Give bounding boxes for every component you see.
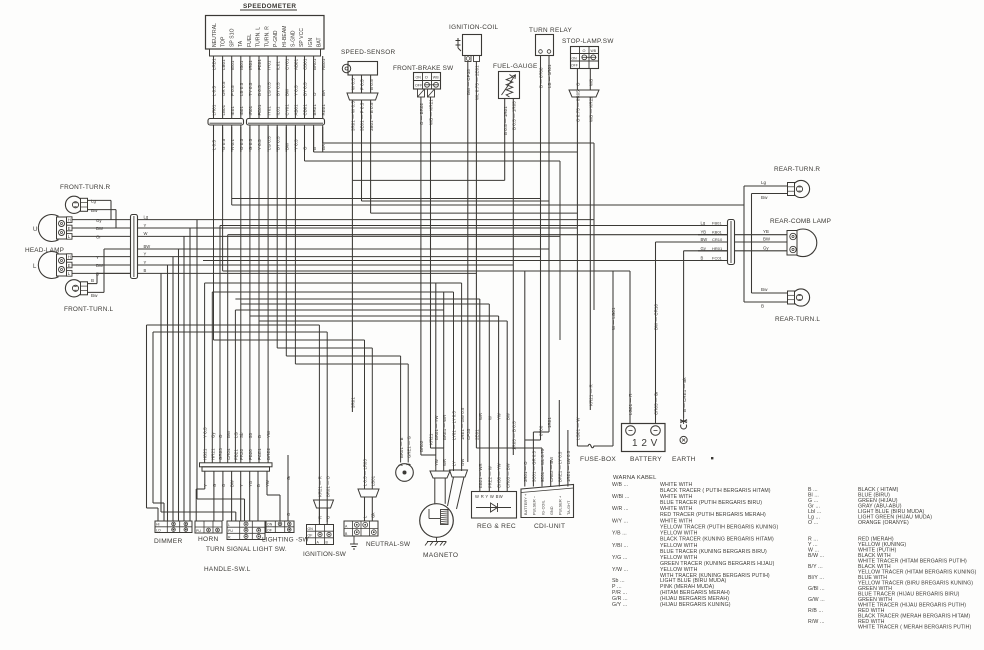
svg-text:P 0.5: P 0.5 (230, 85, 235, 96)
rear-turn-r bulb (792, 180, 809, 197)
wire row magneto row 3 (235, 309, 443, 311)
svg-text:W/Y ...: W/Y ... (612, 519, 628, 525)
front-brake-sw pins (418, 89, 425, 97)
svg-text:RE01: RE01 (321, 104, 326, 116)
svg-text:Bw: Bw (761, 287, 768, 292)
wire neutral-sw wire 2 (371, 348, 373, 489)
rear connector bar (728, 220, 735, 265)
svg-text:KR21: KR21 (429, 433, 434, 445)
svg-text:FRONT-BRAKE SW: FRONT-BRAKE SW (393, 65, 454, 72)
speedometer wire 11 (304, 56, 306, 118)
svg-text:WB — KR22: WB — KR22 (589, 96, 594, 122)
rear loop vertical 1 (743, 186, 745, 302)
svg-text:O: O (312, 92, 317, 96)
svg-text:CR10: CR10 (712, 237, 723, 242)
svg-text:Gr: Gr (286, 475, 291, 480)
svg-text:B — CRE1 — Bk: B — CRE1 — Bk (682, 377, 687, 412)
svg-text:KB01: KB01 (712, 230, 723, 235)
svg-text:S-GND: S-GND (291, 30, 297, 47)
svg-text:B: B (761, 304, 764, 309)
rear comb wires (735, 234, 788, 236)
svg-text:YB: YB (763, 229, 769, 234)
svg-text:FRONT-TURN.L: FRONT-TURN.L (64, 306, 114, 313)
svg-text:BR02: BR02 (419, 440, 424, 452)
ignition-sw connector (314, 500, 334, 508)
svg-text:BR01 — O: BR01 — O (325, 475, 330, 497)
head-lamp upper wires (72, 219, 130, 221)
fuse-box wire right (612, 271, 614, 446)
svg-text:DRE2: DRE2 (266, 447, 271, 460)
svg-text:LG01 — R: LG01 — R (628, 393, 633, 415)
rear bar row Gy (698, 250, 728, 252)
speedometer wire 5 lower (249, 126, 251, 153)
svg-text:(HIJAU BERGARIS KUNING): (HIJAU BERGARIS KUNING) (660, 602, 731, 608)
svg-text:G 0.5: G 0.5 (248, 138, 253, 150)
svg-text:LIGHTING -SW: LIGHTING -SW (262, 537, 310, 544)
svg-text:H: H (68, 254, 71, 259)
svg-text:STOP-LAMP.SW: STOP-LAMP.SW (562, 38, 614, 45)
stop-lamp-sw wires upper (576, 69, 578, 91)
svg-text:B: B (257, 435, 262, 438)
svg-text:O: O (576, 82, 581, 86)
svg-text:AB01: AB01 (294, 104, 299, 116)
fan braid row a (197, 498, 245, 500)
earth dot (711, 457, 713, 459)
svg-text:Y/B ...: Y/B ... (612, 531, 627, 537)
head-lamp upper body (38, 215, 58, 242)
svg-text:Y 0.5: Y 0.5 (294, 85, 299, 96)
speedometer wire 8 lower (276, 126, 278, 153)
svg-text:FRE2 — W: FRE2 — W (487, 466, 492, 488)
wire row r3 (305, 160, 561, 162)
svg-text:IB01: IB01 (239, 106, 244, 116)
neutral-sw ground (350, 536, 358, 549)
horn unit (396, 464, 414, 482)
svg-text:BRE1 — LY 0.5: BRE1 — LY 0.5 (557, 451, 562, 482)
wire stair vertical x197 (196, 220, 198, 499)
svg-text:Sb: Sb (239, 432, 244, 438)
fuel-gauge wire 2 (512, 99, 514, 456)
svg-text:YW: YW (497, 413, 502, 420)
svg-text:IY01: IY01 (266, 106, 271, 116)
speedometer wire 12 lower (313, 126, 315, 153)
svg-text:BLUE TRACER (PUTIH BERGARIS BI: BLUE TRACER (PUTIH BERGARIS BIRU) (660, 500, 762, 506)
svg-text:IL01: IL01 (275, 106, 280, 115)
svg-text:BW: BW (144, 244, 151, 249)
svg-text:E: E (68, 226, 71, 231)
svg-text:O: O (583, 49, 586, 53)
svg-text:CR05 — Gr: CR05 — Gr (654, 391, 659, 415)
svg-text:3R01: 3R01 (351, 397, 356, 408)
front-brake wire joins (421, 454, 436, 456)
svg-text:LY: LY (452, 461, 457, 466)
svg-text:W/R ...: W/R ... (612, 506, 629, 512)
wire row magneto row 2 (212, 291, 453, 293)
wire speedo w8 drop (276, 127, 278, 348)
magneto coil hatch (441, 510, 449, 525)
svg-text:Y/Bl ...: Y/Bl ... (612, 543, 628, 549)
svg-text:WB: WB (433, 76, 439, 80)
svg-text:ORANGE (ORANYE): ORANGE (ORANYE) (858, 520, 909, 526)
svg-text:ON: ON (267, 523, 273, 527)
wire ignition-sw wire 1 (318, 325, 320, 522)
svg-text:BW: BW (96, 263, 104, 268)
svg-text:IL01: IL01 (275, 61, 280, 70)
svg-text:G/Bl ...: G/Bl ... (808, 586, 825, 592)
svg-text:OF: OF (308, 534, 313, 538)
neutral-sw body (344, 521, 378, 536)
svg-text:BR01: BR01 (312, 58, 317, 70)
battery wire left (629, 271, 631, 423)
dimmer body (155, 521, 192, 533)
head-lamp bar row Y y256 (138, 256, 541, 258)
svg-text:3B01 — B 0.5: 3B01 — B 0.5 (369, 102, 374, 131)
wire magneto wire 2 lower (443, 448, 445, 471)
svg-text:WHITE TRACER ( MERAH BERGARIS: WHITE TRACER ( MERAH BERGARIS PUTIH) (858, 625, 971, 631)
svg-text:B 0.5: B 0.5 (257, 85, 262, 96)
svg-text:GR03: GR03 (218, 448, 223, 460)
speedometer wire 4 (240, 56, 242, 118)
svg-text:3R01 — O: 3R01 — O (523, 461, 528, 482)
stop-lamp-sw connector (569, 90, 599, 97)
svg-text:O ...: O ... (808, 520, 818, 526)
speedometer connector bar left (208, 119, 244, 126)
svg-text:8T06: 8T06 (539, 425, 544, 436)
svg-text:2E01: 2E01 (475, 429, 480, 440)
speedometer wire 9 lower (285, 126, 287, 153)
svg-text:O — BR02: O — BR02 (419, 103, 424, 125)
svg-text:1RE1 — LW 0.5: 1RE1 — LW 0.5 (566, 450, 571, 482)
svg-text:YELLOW TRACER (PUTIH BERGARIS: YELLOW TRACER (PUTIH BERGARIS KUNING) (660, 524, 778, 530)
svg-text:RED TRACER (PUTIH BERGARIS MER: RED TRACER (PUTIH BERGARIS MERAH) (660, 512, 766, 518)
fan braid row b (161, 511, 236, 513)
svg-text:1 2 V: 1 2 V (632, 438, 658, 449)
stop-lamp-sw body (571, 47, 599, 69)
svg-text:B/W ...: B/W ... (808, 553, 824, 559)
svg-text:CY01: CY01 (285, 58, 290, 70)
svg-text:Y/W ...: Y/W ... (612, 567, 628, 573)
svg-text:LB — 1R01: LB — 1R01 (547, 64, 552, 88)
svg-text:L: L (228, 523, 230, 527)
svg-text:TURN SIGNAL LIGHT SW.: TURN SIGNAL LIGHT SW. (206, 546, 287, 553)
svg-text:EB21 — WR: EB21 — WR (478, 463, 483, 488)
reg-rec wire 2 (488, 304, 490, 492)
svg-text:ON: ON (416, 76, 422, 80)
horn-sw body (195, 521, 222, 533)
svg-text:SP VCC: SP VCC (299, 28, 305, 47)
speedometer wire 6 (258, 56, 260, 118)
svg-text:BATTERY: BATTERY (630, 456, 662, 463)
wire row rear Gy short (684, 250, 728, 252)
svg-text:SP S1O: SP S1O (229, 28, 235, 47)
svg-text:W R Y W BW: W R Y W BW (475, 494, 503, 499)
wire speedo w13 drop (322, 127, 324, 143)
svg-text:IGNITION-COIL: IGNITION-COIL (449, 24, 498, 31)
head-lamp lower wires (72, 256, 130, 258)
wire stair vertical x178 (178, 249, 180, 521)
speedometer wire 3 lower (231, 126, 233, 153)
magneto connector 1 (430, 471, 450, 478)
svg-text:H: H (68, 217, 71, 222)
svg-text:WL 0.75 — 2E01: WL 0.75 — 2E01 (475, 65, 480, 100)
svg-text:FR20: FR20 (239, 448, 244, 460)
svg-text:Bl/Y ...: Bl/Y ... (808, 575, 824, 581)
svg-text:TA: TA (238, 40, 244, 47)
svg-text:YW: YW (434, 459, 439, 466)
fuel-gauge body (499, 72, 520, 99)
svg-text:LG01 — W: LG01 — W (576, 417, 581, 440)
svg-text:IGN: IGN (308, 38, 314, 47)
wire magneto wire 3 (453, 292, 455, 471)
speed-sensor connector (347, 93, 378, 100)
svg-text:Y: Y (203, 484, 208, 487)
fan dogleg stub1 to horn (196, 488, 205, 490)
svg-text:DIMMER: DIMMER (154, 538, 183, 545)
head-lamp connector bar (131, 215, 138, 279)
svg-text:Y 0.5: Y 0.5 (203, 427, 208, 438)
fan stub 3 (222, 471, 224, 521)
rear loop vertical 2 (751, 194, 753, 294)
stop-lamp wire 1 lower (576, 97, 578, 446)
wire row ignition-sw row 2 (153, 331, 327, 333)
svg-text:MAGNETO: MAGNETO (423, 552, 458, 559)
speed-sensor wire 1 (351, 75, 353, 93)
svg-text:B: B (91, 278, 94, 283)
svg-text:FC01: FC01 (712, 256, 723, 261)
svg-text:PU: PU (228, 529, 233, 533)
svg-text:TA-GHT: TA-GHT (567, 500, 571, 515)
svg-text:G/W ...: G/W ... (808, 597, 825, 603)
svg-text:3E01 — P 0.5: 3E01 — P 0.5 (360, 102, 365, 131)
svg-text:Gy: Gy (96, 218, 102, 223)
svg-text:Lg: Lg (761, 180, 767, 185)
wire ignition-sw wire 2 (326, 332, 328, 522)
svg-text:REG & REC: REG & REC (477, 523, 516, 530)
svg-text:AB01: AB01 (294, 58, 299, 70)
svg-text:O 0.5: O 0.5 (239, 138, 244, 150)
svg-text:WARNA KABEL: WARNA KABEL (613, 475, 657, 481)
svg-text:BR01: BR01 (312, 104, 317, 116)
turn-relay wire 1 (540, 56, 542, 441)
svg-text:BATTERY +: BATTERY + (524, 493, 528, 515)
turn-relay body (536, 35, 554, 56)
svg-text:ON: ON (572, 57, 578, 61)
svg-text:NEUTRAL: NEUTRAL (212, 23, 218, 47)
head-lamp bar row W y236 (138, 235, 561, 237)
svg-text:REAR-COMB LAMP: REAR-COMB LAMP (770, 218, 831, 225)
svg-text:LB 0.5: LB 0.5 (239, 82, 244, 96)
wire stair vertical x161 (160, 273, 162, 512)
svg-text:BRE1 — WR: BRE1 — WR (442, 415, 447, 440)
svg-text:Bw: Bw (91, 208, 98, 213)
svg-text:CB01: CB01 (303, 58, 308, 70)
wire speedo w7 drop to bar (267, 127, 269, 463)
wire stair vertical x153 (152, 332, 154, 503)
svg-text:BR01 — YW: BR01 — YW (434, 415, 439, 440)
speedometer wire 1 (213, 56, 215, 118)
ignition-coil wire 1 (467, 62, 469, 463)
speed-sensor wire 2 (361, 75, 363, 93)
svg-text:GND: GND (550, 506, 554, 515)
svg-text:BW: BW (285, 142, 290, 150)
fan dogleg stub8 to lighting (267, 494, 280, 496)
svg-text:OR 0.5: OR 0.5 (221, 81, 226, 96)
reg-rec body (472, 492, 517, 519)
svg-text:R/W ...: R/W ... (808, 619, 825, 625)
svg-text:BW: BW (701, 237, 708, 242)
head-lamp lower body (38, 252, 58, 279)
speedometer box (206, 16, 325, 50)
battery wire right (655, 242, 657, 423)
fan stub 2 (213, 471, 215, 521)
svg-text:BW: BW (505, 413, 510, 420)
svg-text:HB21: HB21 (203, 448, 208, 460)
front-brake-sw body (414, 73, 441, 90)
svg-text:TURN. R: TURN. R (264, 26, 270, 47)
svg-text:FE01: FE01 (257, 104, 262, 115)
wire speedo w5 drop to bar (249, 127, 251, 463)
svg-text:PULSER −: PULSER − (533, 495, 537, 515)
wire speedo w3 drop (231, 127, 233, 205)
svg-text:O: O (303, 146, 308, 150)
svg-text:SPEEDOMETER: SPEEDOMETER (243, 3, 296, 10)
svg-text:Y 0.3: Y 0.3 (294, 139, 299, 150)
svg-text:BW: BW (285, 88, 290, 96)
svg-text:IGNITION-SW: IGNITION-SW (303, 551, 347, 558)
svg-text:YW: YW (265, 480, 270, 487)
svg-text:TURN. L: TURN. L (256, 27, 262, 47)
ignition-sw body (307, 525, 334, 545)
svg-text:LB01: LB01 (370, 475, 375, 486)
speed-sensor body (348, 62, 378, 76)
svg-text:Lg: Lg (701, 221, 706, 226)
fan stub 7 (257, 471, 259, 521)
earth wire (683, 251, 685, 418)
wire row rear B trunk (203, 260, 728, 262)
svg-text:B: B (312, 147, 317, 150)
wire row magneto row 1 (205, 282, 462, 284)
magneto body (420, 504, 454, 538)
svg-text:REAR-TURN.L: REAR-TURN.L (775, 316, 820, 323)
svg-text:PU: PU (196, 529, 201, 533)
svg-text:O: O (218, 434, 223, 438)
speedometer connector bar right (247, 119, 325, 126)
wire horn wire 1 (400, 356, 402, 463)
front-turn-l wires (88, 283, 98, 285)
front-turn-r wires (88, 199, 112, 201)
svg-text:YW: YW (266, 430, 271, 438)
svg-text:Gy: Gy (763, 245, 769, 250)
svg-text:LY01 — LY 0.5: LY01 — LY 0.5 (452, 410, 457, 440)
svg-text:HORN: HORN (198, 536, 219, 543)
svg-text:KR21 — R: KR21 — R (318, 476, 323, 497)
svg-text:O: O (425, 75, 428, 80)
turn-signal body (227, 521, 265, 540)
svg-text:IY01: IY01 (266, 60, 271, 70)
wire speedo w9 drop (285, 127, 287, 356)
fan stub 1 (204, 471, 206, 489)
speedometer wire 13 lower (322, 126, 324, 153)
svg-text:YG: YG (248, 481, 253, 487)
svg-text:O 0.75 — 8R05: O 0.75 — 8R05 (576, 90, 581, 122)
svg-text:BLACK TRACER ( PUTIH BERGARIS: BLACK TRACER ( PUTIH BERGARIS HITAM) (660, 488, 771, 494)
svg-text:WB — KR21: WB — KR21 (429, 99, 434, 125)
svg-text:R: R (318, 516, 323, 519)
svg-text:GW: GW (460, 459, 465, 466)
fan stub 8 (266, 471, 268, 495)
wire stair vertical x146 (146, 325, 148, 508)
svg-text:EARTH: EARTH (672, 456, 696, 463)
svg-text:BW — CR10: BW — CR10 (654, 304, 659, 330)
svg-text:LB01: LB01 (221, 104, 226, 115)
svg-text:P 0.5: P 0.5 (360, 79, 365, 90)
wire magneto wire 1 lower (435, 455, 437, 471)
svg-text:Gy: Gy (210, 431, 215, 438)
handle switch connector bar (200, 463, 273, 467)
svg-text:FB20: FB20 (248, 449, 253, 460)
magneto ground (425, 538, 447, 546)
svg-text:Lg: Lg (91, 199, 97, 204)
svg-text:Y: Y (144, 251, 147, 256)
svg-text:55: 55 (248, 432, 253, 438)
speedometer wire 5 (249, 56, 251, 118)
lighting-sw body (266, 521, 294, 533)
head-lamp bar row B y273 (138, 272, 477, 274)
svg-text:GRE1 — G: GRE1 — G (406, 436, 411, 458)
head-lamp bar row Lg y219 (138, 219, 595, 221)
wire row horn row 2 (295, 363, 408, 365)
wire row rear BW short (656, 241, 728, 243)
svg-text:OFF: OFF (415, 84, 423, 88)
ignition-coil terminals (465, 56, 471, 62)
svg-text:KR21 — R: KR21 — R (589, 384, 594, 406)
rear-comb-lamp bulb (789, 229, 817, 257)
svg-text:BW: BW (763, 237, 771, 242)
rear bar row YB (698, 234, 728, 236)
svg-text:HI-BEAM: HI-BEAM (282, 25, 288, 47)
svg-text:ON: ON (308, 527, 314, 531)
svg-text:Y/G ...: Y/G ... (612, 555, 627, 561)
svg-text:RE01: RE01 (321, 58, 326, 70)
svg-text:IG-COIL: IG-COIL (541, 500, 545, 515)
svg-text:FE01: FE01 (257, 59, 262, 70)
speed-sensor wire 3 lower (370, 100, 372, 213)
speed-sensor wire 2 lower (361, 100, 363, 201)
svg-text:LG 0.5: LG 0.5 (266, 82, 271, 96)
svg-text:BW: BW (226, 430, 231, 438)
speed-sensor wire 1 branch down (351, 180, 353, 412)
svg-text:BLUE TRACER (KUNING BERGARIS B: BLUE TRACER (KUNING BERGARIS BIRU) (660, 549, 767, 555)
svg-text:B — 8T06: B — 8T06 (539, 67, 544, 88)
svg-text:B/Y ...: B/Y ... (808, 564, 823, 570)
svg-text:CRE2 — BW: CRE2 — BW (549, 457, 554, 482)
speedometer wire 1 lower (213, 126, 215, 153)
svg-text:IE01: IE01 (230, 60, 235, 70)
fan stub 4 (231, 471, 233, 521)
svg-text:IB01: IB01 (239, 60, 244, 70)
speedometer wire 11 lower (304, 126, 306, 153)
speed-sensor wire 1 lower (351, 100, 353, 180)
wire speedo w4 drop to bar (240, 127, 242, 463)
magneto wire 2 upper (443, 292, 445, 448)
svg-text:E: E (68, 263, 71, 268)
svg-text:9E01 — WL 0.75: 9E01 — WL 0.75 (540, 448, 545, 482)
wire row r2 (314, 151, 578, 153)
reg-rec wire 3 (498, 316, 500, 492)
svg-text:B: B (256, 484, 261, 487)
fan stub 5 (240, 471, 242, 521)
wire bundle 4 (227, 235, 229, 463)
